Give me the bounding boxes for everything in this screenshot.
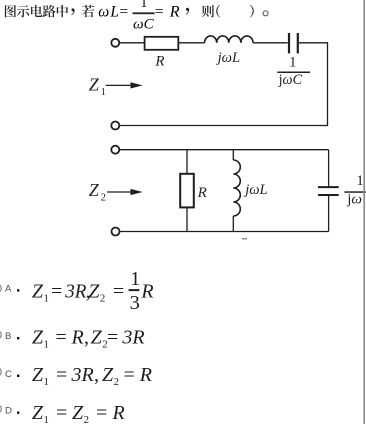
stray scan mark below Z2 circuit [242, 238, 247, 240]
wire bottom of Z2 circuit [120, 231, 329, 233]
terminal top-left of Z2 circuit [111, 146, 119, 154]
svg-text:=: = [56, 402, 67, 424]
svg-text:=: = [51, 280, 62, 302]
svg-text:=: = [56, 364, 67, 386]
svg-text:=: = [56, 326, 67, 348]
svg-text:Z: Z [88, 280, 100, 302]
svg-text:Z: Z [32, 326, 44, 348]
radio button option D (clipped at left edge) [0, 405, 1, 414]
svg-text:1: 1 [44, 339, 49, 351]
svg-text:=: = [119, 3, 128, 20]
svg-text:jωL: jωL [216, 50, 240, 66]
title fraction 1/omega-C [133, 0, 155, 32]
svg-text:B: B [5, 331, 11, 342]
svg-text:3R: 3R [71, 364, 94, 386]
svg-text:Z: Z [32, 402, 44, 424]
svg-text:1: 1 [130, 268, 140, 290]
svg-text:=: = [113, 280, 124, 302]
arrow for Z1 [106, 82, 143, 88]
terminal bottom-left of Z2 circuit [112, 228, 120, 236]
radio button option B (clipped at left edge) [0, 331, 1, 340]
svg-text:jωL: jωL [243, 182, 267, 198]
title Chinese ，则（ ）。 [186, 5, 269, 18]
svg-text:1: 1 [356, 173, 363, 189]
svg-text:R: R [154, 53, 164, 69]
svg-text:1: 1 [289, 55, 296, 71]
vertical border line right edge [363, 0, 365, 424]
option D equation Z1=Z2=R [32, 402, 125, 424]
resistor R (Z2) vertical with wires [180, 150, 194, 232]
option A equation Z1=3R, Z2=1/3 R [32, 268, 154, 314]
svg-text:Z: Z [72, 402, 84, 424]
option letter C. [5, 369, 19, 380]
label Z2 with subscript [89, 180, 106, 204]
label fraction 1/jwC (Z2, clipped) [344, 173, 366, 207]
svg-text:1: 1 [44, 293, 49, 305]
terminal bottom-left of Z1 circuit [111, 122, 119, 130]
svg-text:3: 3 [130, 292, 140, 314]
svg-text:D: D [5, 406, 12, 417]
svg-text:Z: Z [32, 364, 44, 386]
radio button option A (clipped at left edge) [0, 284, 1, 293]
terminal top-left of Z1 circuit [111, 39, 119, 47]
svg-text:2: 2 [84, 414, 89, 424]
svg-text:2: 2 [100, 293, 105, 305]
capacitor 1/jwC (Z1): two vertical plates [289, 33, 298, 53]
wire: resistor to inductor [178, 42, 204, 44]
svg-text:=: = [96, 402, 107, 424]
svg-text:R: R [169, 3, 180, 20]
svg-text:R: R [112, 402, 125, 424]
svg-text:ωL: ωL [98, 3, 120, 20]
svg-text:R: R [139, 364, 152, 386]
label fraction 1/jwC (Z1) [277, 55, 310, 89]
svg-text:jωC: jωC [278, 72, 303, 88]
svg-text:Z: Z [102, 364, 114, 386]
svg-text:Z: Z [32, 280, 44, 302]
option C equation Z1=3R, Z2=R [32, 364, 152, 388]
option letter A. [5, 283, 19, 294]
svg-text:,: , [94, 364, 99, 386]
svg-text:R: R [71, 326, 84, 348]
option letter D. [5, 406, 19, 417]
svg-text:3R: 3R [121, 326, 144, 348]
title Chinese text 图示电路中，若 [5, 5, 95, 17]
option letter B. [5, 331, 19, 342]
svg-text:3R: 3R [64, 280, 86, 302]
title math = R [155, 3, 180, 20]
wire top: terminal to resistor [120, 42, 145, 44]
svg-text:=: = [155, 3, 164, 20]
capacitor (Z2) horizontal plates with wires [318, 150, 339, 232]
svg-text:1: 1 [101, 87, 106, 98]
svg-text:Z: Z [89, 74, 100, 94]
svg-text:R: R [140, 280, 153, 302]
wire top of Z2 circuit [120, 149, 329, 151]
svg-text:=: = [124, 364, 135, 386]
label Z1 with subscript [89, 74, 106, 98]
svg-text:C: C [5, 369, 12, 380]
svg-text:jω: jω [346, 191, 362, 207]
inductor jwL (Z1): 4 humps [205, 36, 253, 43]
arrow for Z2 [107, 189, 143, 195]
svg-text:1: 1 [141, 0, 148, 10]
svg-text:,: , [84, 326, 89, 348]
svg-text:2: 2 [114, 376, 119, 388]
wire: capacitor to right corner, down right side [120, 43, 328, 126]
svg-text:2: 2 [101, 193, 106, 204]
svg-text:ωC: ωC [133, 16, 155, 32]
svg-text:A: A [5, 283, 12, 294]
resistor R (Z1) [145, 37, 179, 50]
svg-text:Z: Z [89, 180, 100, 200]
svg-text:1: 1 [44, 376, 49, 388]
svg-text:Z: Z [91, 326, 103, 348]
svg-text:1: 1 [44, 414, 49, 424]
inductor jwL (Z2) vertical with wires [233, 150, 240, 232]
radio button option C (clipped at left edge) [0, 368, 1, 377]
wire: inductor to capacitor [253, 42, 288, 44]
option B equation Z1=R, Z2=3R [32, 326, 145, 350]
title math omega-L [98, 3, 128, 20]
svg-text:R: R [197, 185, 207, 201]
svg-text:=: = [107, 326, 118, 348]
